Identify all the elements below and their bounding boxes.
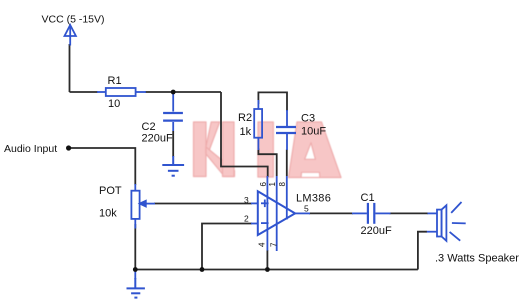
node audio input terminal <box>66 145 71 150</box>
op-amp output pin 5 blue stub <box>295 212 310 214</box>
op-amp input pin 2 blue stub <box>251 223 258 225</box>
svg-text:VCC (5 -15V): VCC (5 -15V) <box>42 14 105 26</box>
svg-text:Audio Input: Audio Input <box>4 143 57 155</box>
svg-text:10k: 10k <box>99 207 117 219</box>
wire pin 2 to ground rail <box>202 224 252 270</box>
svg-text:.3 Watts Speaker: .3 Watts Speaker <box>435 253 519 265</box>
op-amp U1 LM386 triangle <box>258 191 295 235</box>
svg-text:2: 2 <box>244 213 249 223</box>
resistor R2 <box>254 100 262 150</box>
svg-text:220uF: 220uF <box>361 225 392 237</box>
svg-text:R2: R2 <box>238 112 252 124</box>
wire C2 top stub <box>172 92 174 112</box>
wire C1 right blue lead <box>375 212 390 214</box>
wire VCC vertical from arrow to corner <box>69 44 71 92</box>
svg-text:10: 10 <box>108 98 120 110</box>
svg-text:C1: C1 <box>361 192 375 204</box>
op-amp input pin 3 blue stub <box>251 202 258 204</box>
svg-text:220uF: 220uF <box>142 133 173 145</box>
op-amp minus sign <box>261 222 269 224</box>
watermark KIA <box>194 122 342 178</box>
ground (C2) <box>162 156 184 176</box>
wire R2 bottom jog to pin 1 <box>258 149 276 177</box>
speaker LS1 <box>427 205 447 241</box>
svg-text:POT: POT <box>99 185 122 197</box>
capacitor C3 <box>276 127 296 133</box>
wire R2 top to C3 top link <box>258 92 287 111</box>
svg-text:3: 3 <box>244 195 249 205</box>
node junction R1/C2 <box>171 90 176 95</box>
wire speaker bottom return to ground rail <box>418 232 427 270</box>
wire C2 bottom to ground <box>172 122 174 131</box>
svg-text:C3: C3 <box>301 112 315 124</box>
svg-text:1k: 1k <box>240 126 252 138</box>
wire C3 top blue lead <box>286 110 288 126</box>
node junction pin4/ground rail <box>265 267 270 272</box>
node junction pin2/ground rail <box>200 267 205 272</box>
wire VCC rail down jog to pin 6 <box>221 92 268 177</box>
capacitor C2 <box>163 113 183 121</box>
op-amp pin 6 wire through body <box>266 176 268 251</box>
wire C3 bottom blue lead <box>286 134 288 150</box>
wire C1 left blue lead <box>352 212 367 214</box>
svg-text:C2: C2 <box>142 121 156 133</box>
svg-text:LM386: LM386 <box>296 192 331 204</box>
resistor R1 <box>97 88 146 96</box>
speaker sound waves <box>450 202 466 241</box>
wire C1 to speaker top <box>390 212 429 214</box>
capacitor C1 <box>368 203 374 224</box>
svg-text:4: 4 <box>258 242 267 247</box>
wire output pin 5 to C1 <box>309 212 353 214</box>
potentiometer wiper arrow <box>140 201 155 207</box>
wire audio input to POT top <box>69 148 136 185</box>
wire C3 bottom to pin 8 <box>286 150 288 177</box>
svg-text:7: 7 <box>270 242 279 247</box>
wire VCC corner to R1 left lead <box>70 91 99 93</box>
svg-text:R1: R1 <box>108 75 122 87</box>
VCC arrow symbol <box>65 25 76 46</box>
wire POT bottom blue stub to ground <box>134 271 136 279</box>
svg-text:5: 5 <box>304 204 309 214</box>
svg-text:8: 8 <box>278 182 287 187</box>
ground (POT bottom) <box>127 278 145 298</box>
svg-text:1: 1 <box>268 182 277 187</box>
wire POT bottom to ground rail <box>134 224 136 270</box>
wire pin 4 to ground rail <box>266 250 268 270</box>
potentiometer POT <box>131 184 139 229</box>
node junction POT/ground rail <box>133 267 138 272</box>
op-amp pin 8 wire <box>286 176 288 220</box>
op-amp pin 1 / pin 7 wire through body <box>276 176 278 251</box>
svg-text:6: 6 <box>259 182 268 187</box>
wire ground rail <box>135 269 418 271</box>
wire POT wiper to pin 3 <box>154 203 252 205</box>
svg-text:10uF: 10uF <box>301 125 326 137</box>
wire R1 right lead to junction and on to pin6 corner <box>145 91 221 93</box>
op-amp plus sign <box>261 200 269 208</box>
